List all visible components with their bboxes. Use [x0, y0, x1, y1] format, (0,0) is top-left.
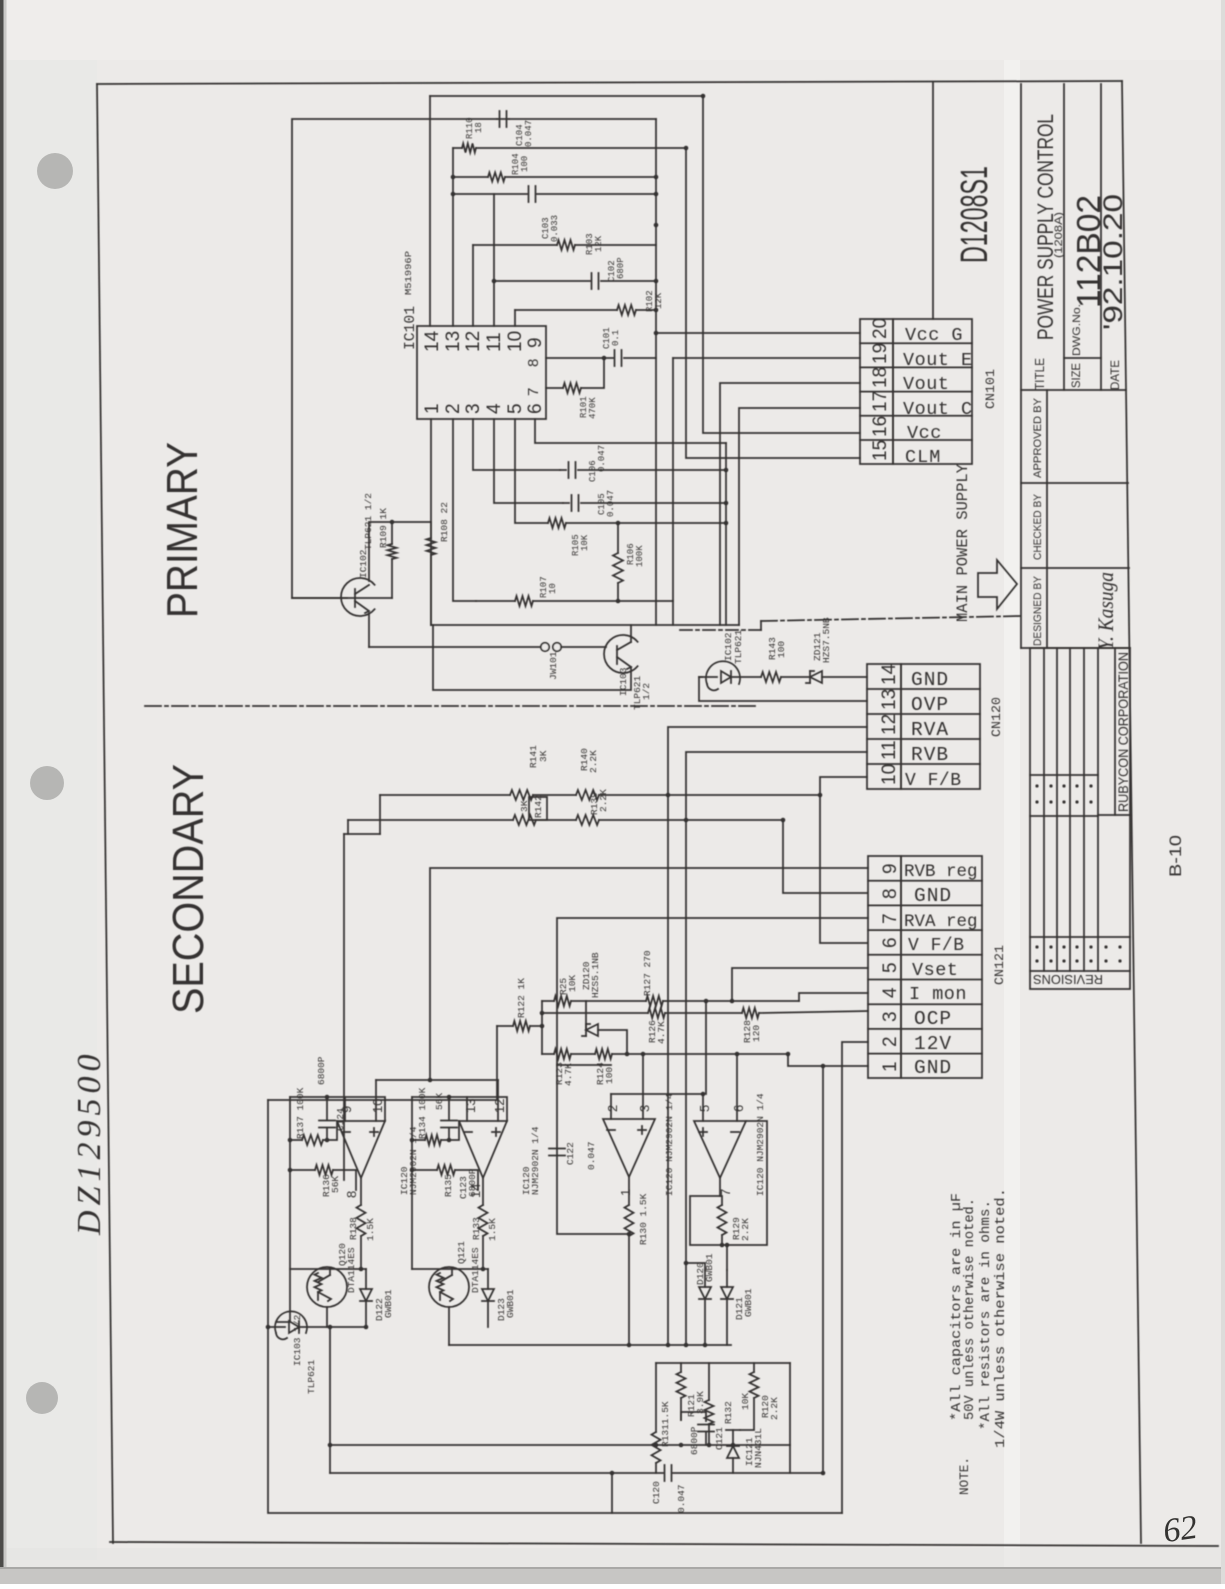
- IC120c plus: [638, 1129, 646, 1131]
- capacitor C120: [664, 1465, 666, 1481]
- capacitor C106: [560, 469, 566, 471]
- wire R110 rail: [453, 147, 462, 149]
- resistor R105: [548, 518, 566, 528]
- svg-text:13: 13: [443, 331, 464, 352]
- resistor R101: [563, 383, 581, 393]
- svg-text:10: 10: [548, 583, 558, 594]
- svg-text:R109 1K: R109 1K: [378, 508, 389, 548]
- svg-text:OCP: OCP: [914, 1008, 952, 1030]
- resistor R131: [655, 1363, 657, 1432]
- svg-text:12: 12: [879, 714, 900, 735]
- svg-text:Vcc G: Vcc G: [905, 325, 963, 346]
- svg-text:B-10: B-10: [1166, 835, 1185, 877]
- svg-text:Vset: Vset: [912, 960, 958, 981]
- svg-text:18: 18: [474, 122, 484, 133]
- svg-text:0.047: 0.047: [676, 1484, 687, 1513]
- resistor R133: [479, 1205, 488, 1236]
- svg-text:RVA: RVA: [911, 719, 949, 741]
- bus wire Vout: [720, 383, 860, 625]
- svg-text:REVISIONS: REVISIONS: [1033, 972, 1103, 987]
- primary left loop wire: [292, 119, 497, 598]
- resistor R138: [357, 1205, 366, 1236]
- svg-text:*All resistors are in ohms.: *All resistors are in ohms.: [979, 1200, 994, 1430]
- svg-text:CLM: CLM: [905, 447, 941, 468]
- diode D122: [360, 1289, 372, 1301]
- svg-text:APPROVED BY: APPROVED BY: [1032, 397, 1044, 478]
- svg-text:8: 8: [880, 888, 901, 899]
- svg-text:R135: R135: [443, 1174, 454, 1197]
- svg-text:10: 10: [505, 331, 526, 352]
- IC120b minus: [464, 1131, 472, 1133]
- svg-text:9: 9: [339, 1106, 354, 1113]
- op-amp IC120c triangle: [603, 1119, 655, 1177]
- sheet border right edge: [1122, 81, 1141, 1543]
- bus wire Vout C: [739, 408, 860, 625]
- svg-text:6800P: 6800P: [316, 1056, 327, 1085]
- svg-text:I mon: I mon: [909, 984, 967, 1005]
- svg-text:R134 100K: R134 100K: [417, 1087, 428, 1139]
- revisions RUBYCON CORPORATION cell: [1114, 648, 1116, 815]
- svg-text:Vout: Vout: [903, 374, 949, 395]
- svg-text:4: 4: [880, 987, 901, 998]
- svg-text:CN120: CN120: [989, 697, 1004, 737]
- resistor R128: [742, 1008, 759, 1018]
- svg-text:12: 12: [463, 331, 484, 352]
- IC101 pin2 wire: [453, 419, 476, 601]
- svg-text:IC102: IC102: [358, 549, 369, 578]
- svg-text:8: 8: [344, 1191, 359, 1198]
- wire opamp2 feedback box: [412, 1097, 507, 1121]
- svg-text:680P: 680P: [616, 257, 626, 279]
- op-amp controller IC101 box: [417, 326, 546, 419]
- svg-text:1: 1: [880, 1061, 901, 1072]
- zener diode ZD120: [586, 1024, 598, 1036]
- svg-text:Q121: Q121: [456, 1241, 467, 1264]
- svg-text:V F/B: V F/B: [908, 936, 965, 956]
- svg-text:IC120 NJM2902N 1/4: IC120 NJM2902N 1/4: [664, 1093, 675, 1196]
- punch hole top: [37, 153, 73, 189]
- svg-text:DTA114ES: DTA114ES: [346, 1247, 357, 1293]
- svg-text:DTA114ES: DTA114ES: [470, 1247, 481, 1293]
- title block SIZE-DWG row separator: [1100, 84, 1102, 390]
- resistor R141: [510, 790, 533, 800]
- svg-text:'92.10.20: '92.10.20: [1098, 194, 1128, 330]
- wire RVB rail: [348, 819, 513, 821]
- svg-text:Y. Kasuga: Y. Kasuga: [1093, 572, 1118, 650]
- revisions column line a: [1030, 774, 1098, 776]
- wire Q120 emitter rail: [327, 1326, 366, 1328]
- svg-text:5: 5: [697, 1105, 712, 1112]
- IC101 pin4 wire: [494, 419, 563, 503]
- svg-text:RVA reg: RVA reg: [904, 912, 978, 932]
- svg-text:11: 11: [879, 740, 900, 760]
- IC101 pin12 stub: [472, 245, 474, 326]
- punch hole bottom: [26, 1382, 58, 1414]
- svg-text:R1311.5K: R1311.5K: [660, 1401, 671, 1447]
- svg-text:16: 16: [870, 416, 891, 437]
- op-amp IC120b triangle: [459, 1121, 507, 1178]
- wire IC102 emitter: [368, 613, 370, 647]
- wire opamp4 inputs: [702, 1094, 704, 1121]
- op-amp IC120d triangle: [694, 1121, 746, 1178]
- svg-text:9: 9: [880, 863, 901, 874]
- sheet border bottom edge: [110, 1542, 1218, 1546]
- svg-text:7: 7: [880, 913, 901, 924]
- wire opamp1 feedback box: [290, 1097, 385, 1121]
- svg-text:R133: R133: [471, 1217, 482, 1240]
- IC120b plus: [492, 1131, 500, 1133]
- resistor R132: [705, 1400, 714, 1424]
- resistor R103: [557, 240, 575, 250]
- primary-secondary separator dash line left: [145, 705, 757, 707]
- wire R125 out: [586, 1000, 646, 1002]
- resistor R107: [476, 600, 515, 602]
- svg-text:TITLE: TITLE: [1032, 358, 1047, 390]
- svg-text:GWB01: GWB01: [505, 1289, 516, 1318]
- svg-text:9: 9: [525, 337, 546, 348]
- optocoupler IC103 phototransistor: [604, 635, 638, 673]
- svg-text:HZS5.1NB: HZS5.1NB: [590, 952, 601, 998]
- svg-text:100: 100: [604, 1067, 615, 1084]
- wire Q120: [290, 1268, 366, 1270]
- svg-text:RUBYCON CORPORATION: RUBYCON CORPORATION: [1115, 652, 1131, 812]
- capacitor C123: [441, 1120, 457, 1122]
- wire C102 rail: [494, 280, 590, 282]
- svg-text:10K: 10K: [567, 975, 578, 992]
- wire secondary long rail 2: [330, 1472, 663, 1474]
- wire secondary long rail 1: [329, 1327, 331, 1473]
- resistor R104: [488, 173, 505, 182]
- bus wire CLM: [686, 148, 860, 458]
- svg-text:M51996P: M51996P: [404, 251, 414, 295]
- svg-text:TLP621: TLP621: [306, 1359, 317, 1394]
- svg-text:GND: GND: [914, 885, 952, 907]
- revisions dot marks band 2: [1035, 945, 1038, 948]
- title block TITLE row separator: [1063, 84, 1065, 390]
- IC101 pin8 wire: [546, 357, 613, 359]
- svg-text:RVB: RVB: [911, 744, 949, 766]
- wire IC102 LED return / OVP: [699, 677, 867, 701]
- IC101 pin14 stub: [429, 96, 431, 326]
- svg-text:MAIN POWER SUPPLY: MAIN POWER SUPPLY: [954, 463, 972, 622]
- revisions column line b: [1030, 815, 1098, 817]
- connector CN121 box: [868, 856, 901, 1078]
- IC101 pin6 wire: [535, 419, 726, 443]
- wire GND rail: [822, 1066, 824, 1473]
- svg-text:DWG.No.: DWG.No.: [1071, 304, 1083, 356]
- resistor R109: [388, 544, 397, 559]
- resistor R137: [302, 1135, 323, 1145]
- svg-text:14: 14: [422, 330, 443, 352]
- svg-text:120: 120: [751, 1025, 762, 1042]
- primary Vcc top rail: [430, 95, 703, 97]
- IC101 pin5 wire: [515, 419, 548, 523]
- resistor R123: [542, 1053, 554, 1055]
- svg-text:2.2K: 2.2K: [598, 789, 609, 812]
- svg-text:100: 100: [520, 156, 530, 172]
- bus wire Vout E: [672, 358, 674, 625]
- wire I mon: [799, 993, 868, 1001]
- svg-text:50V unless otherwise noted.: 50V unless otherwise noted.: [963, 1198, 978, 1420]
- title CHECKED BY column: [1021, 567, 1129, 569]
- svg-text:10K: 10K: [740, 1393, 751, 1410]
- resistor R122: [497, 1025, 513, 1027]
- svg-text:TLP621: TLP621: [733, 629, 744, 664]
- svg-text:13: 13: [879, 689, 900, 710]
- wire opamp3 box: [557, 1065, 629, 1234]
- svg-text:2: 2: [443, 403, 464, 414]
- handwritten DZ129500: [71, 1050, 108, 1236]
- wire R122 left feed: [268, 1026, 497, 1100]
- svg-text:V F/B: V F/B: [905, 771, 962, 791]
- capacitor C121: [681, 1412, 706, 1421]
- svg-text:(1208A): (1208A): [1053, 212, 1065, 258]
- svg-text:GND: GND: [914, 1057, 952, 1079]
- wire opamp1 inputs: [344, 1097, 346, 1121]
- svg-text:14: 14: [879, 663, 900, 685]
- svg-text:R127 270: R127 270: [642, 950, 653, 996]
- svg-text:CHECKED BY: CHECKED BY: [1032, 493, 1044, 560]
- resistor R139: [576, 815, 599, 825]
- wire C104 top rail: [497, 118, 509, 120]
- wire R122 node: [541, 1001, 543, 1054]
- connector CN120 box: [867, 664, 901, 789]
- wire opamp4 out: [690, 1196, 722, 1245]
- svg-text:17: 17: [870, 391, 891, 412]
- optocoupler IC102 phototransistor: [341, 578, 375, 616]
- wire IC103 collector to bus: [630, 625, 632, 642]
- svg-text:Vout E: Vout E: [903, 350, 973, 371]
- wire IC102 collector: [369, 522, 431, 581]
- svg-text:56K: 56K: [330, 1176, 341, 1193]
- svg-text:0.047: 0.047: [586, 1141, 597, 1170]
- svg-text:IC103 1/2: IC103 1/2: [292, 1314, 303, 1366]
- svg-text:7: 7: [525, 388, 542, 396]
- svg-text:5: 5: [505, 403, 526, 414]
- svg-text:3: 3: [637, 1105, 652, 1112]
- diode D120: [699, 1287, 711, 1299]
- svg-text:3K: 3K: [538, 750, 549, 762]
- wire comparator I-mon jog: [611, 1093, 703, 1095]
- resistor R142: [513, 815, 536, 825]
- svg-text:2.2K: 2.2K: [769, 1397, 780, 1420]
- wire R139 to GND pin8: [783, 820, 867, 893]
- capacitor C105: [563, 502, 569, 504]
- svg-text:DZ129500: DZ129500: [71, 1050, 108, 1236]
- svg-text:DESIGNED BY: DESIGNED BY: [1032, 575, 1044, 646]
- svg-text:6800P: 6800P: [689, 1426, 700, 1455]
- svg-text:10: 10: [879, 764, 900, 785]
- svg-text:R108 22: R108 22: [439, 502, 450, 542]
- svg-text:R132: R132: [723, 1401, 734, 1424]
- svg-text:R130 1.5K: R130 1.5K: [638, 1193, 649, 1245]
- optocoupler IC103 LED side: [275, 1311, 307, 1333]
- resistor R126: [542, 1012, 648, 1014]
- resistor R102: [617, 305, 636, 315]
- svg-text:0.1: 0.1: [611, 330, 621, 346]
- resistor R135: [437, 1165, 455, 1175]
- svg-text:C120: C120: [651, 1481, 662, 1504]
- svg-text:1.5K: 1.5K: [365, 1218, 376, 1241]
- wire 12V rail: [842, 1042, 868, 1513]
- svg-text:OVP: OVP: [911, 694, 949, 716]
- wire opamp3 inputs: [642, 1054, 644, 1119]
- wire C103 rail: [453, 193, 527, 195]
- sheet border left edge: [97, 84, 113, 1543]
- wire RVA reg rail: [557, 918, 868, 1065]
- capacitor C122: [549, 1148, 565, 1150]
- main power supply corridor line: [932, 82, 934, 319]
- svg-text:GWB01: GWB01: [383, 1289, 394, 1318]
- diode D121: [721, 1287, 733, 1299]
- svg-text:HZS7.5NB: HZS7.5NB: [821, 617, 832, 663]
- capacitor C104: [499, 111, 501, 127]
- revisions column line e: [1030, 970, 1130, 972]
- wire R104 rail: [453, 176, 488, 178]
- title block outline: [1020, 84, 1022, 648]
- svg-text:IC120 NJM2902N 1/4: IC120 NJM2902N 1/4: [755, 1093, 766, 1196]
- bus wire Vcc G: [655, 119, 657, 625]
- revisions column line c: [1098, 814, 1130, 816]
- svg-text:NJM2902N 1/4: NJM2902N 1/4: [530, 1126, 541, 1195]
- resistor R106: [613, 553, 623, 583]
- wire D120 top to RVB: [686, 1263, 705, 1270]
- zener diode ZD121: [810, 671, 822, 683]
- svg-text:10K: 10K: [580, 534, 590, 551]
- resistor R127: [646, 996, 663, 1006]
- main power supply arrow: [978, 560, 1017, 609]
- wire R124 to pin1: [788, 1054, 868, 1066]
- svg-text:0.047: 0.047: [524, 120, 534, 147]
- revisions dot marks band 1: [1035, 784, 1038, 787]
- title label row line: [1046, 390, 1048, 648]
- op-amp IC120a triangle: [337, 1121, 385, 1178]
- svg-text:R138: R138: [348, 1217, 359, 1240]
- svg-text:6: 6: [731, 1105, 746, 1112]
- svg-text:D1208S1: D1208S1: [954, 166, 996, 263]
- sheet border top edge: [97, 81, 1122, 84]
- svg-text:15: 15: [870, 440, 891, 461]
- svg-text:Vout C: Vout C: [903, 399, 973, 420]
- secondary enclosure box: [268, 1100, 842, 1513]
- resistor R136: [315, 1165, 333, 1175]
- resistor R134: [425, 1135, 441, 1145]
- svg-text:1.5K: 1.5K: [487, 1218, 498, 1241]
- IC120d plus: [699, 1131, 707, 1133]
- capacitor C103: [528, 186, 530, 202]
- svg-text:JW101: JW101: [548, 651, 559, 680]
- resistor R124: [571, 1053, 595, 1055]
- svg-text:R137 100K: R137 100K: [295, 1087, 306, 1139]
- wire R102 rail: [515, 309, 617, 311]
- svg-text:62: 62: [1161, 1509, 1200, 1550]
- resistor R129: [718, 1205, 727, 1235]
- svg-text:CN101: CN101: [983, 369, 998, 409]
- svg-text:100K: 100K: [635, 545, 645, 567]
- shunt regulator IC121 NJN431L: [727, 1446, 739, 1458]
- optocoupler IC102 LED side: [706, 661, 740, 684]
- diode D123: [482, 1289, 494, 1301]
- svg-text:GND: GND: [911, 669, 949, 691]
- svg-text:0.047: 0.047: [606, 490, 616, 517]
- revisions column line d: [1030, 936, 1130, 938]
- svg-text:1/4W unless otherwise noted.: 1/4W unless otherwise noted.: [994, 1188, 1009, 1448]
- resistor R108: [427, 538, 436, 555]
- IC101 pin7 wire: [546, 387, 563, 389]
- svg-text:2.2K: 2.2K: [588, 750, 599, 773]
- IC101 pin1 wire: [430, 419, 432, 625]
- svg-text:C122: C122: [565, 1142, 576, 1165]
- resistor R125: [542, 1000, 554, 1002]
- wire Vset: [732, 968, 868, 1001]
- svg-text:6: 6: [525, 403, 546, 414]
- wire D121 top to output loop: [726, 1245, 728, 1270]
- svg-text:Vcc: Vcc: [907, 423, 942, 444]
- svg-text:1: 1: [422, 403, 443, 414]
- capacitor C124: [319, 1120, 335, 1122]
- svg-text:6: 6: [880, 937, 901, 948]
- IC120c minus: [607, 1129, 615, 1131]
- svg-text:3: 3: [880, 1011, 901, 1022]
- wire bottom cluster box: [656, 1362, 790, 1364]
- svg-text:12K: 12K: [594, 235, 604, 252]
- svg-text:4.7K: 4.7K: [563, 1063, 574, 1086]
- connector CN101 box: [860, 319, 893, 464]
- svg-text:RVB reg: RVB reg: [904, 862, 978, 882]
- svg-text:2: 2: [605, 1105, 620, 1112]
- svg-text:20: 20: [870, 318, 891, 339]
- svg-text:12V: 12V: [914, 1033, 952, 1055]
- svg-text:1/2: 1/2: [641, 683, 652, 700]
- primary-secondary separator jog: [680, 629, 761, 631]
- svg-text:PRIMARY: PRIMARY: [158, 442, 207, 618]
- svg-text:470K: 470K: [588, 397, 598, 419]
- wire RVB reg rail: [430, 868, 868, 1080]
- resistor R120: [750, 1372, 759, 1398]
- IC101 pin10 stub: [514, 310, 516, 326]
- primary bottom rail: [431, 624, 739, 626]
- svg-text:R122 1K: R122 1K: [516, 978, 527, 1018]
- svg-text:100: 100: [776, 641, 787, 658]
- svg-text:8: 8: [525, 359, 542, 367]
- wire C120 stub: [611, 1473, 613, 1513]
- svg-text:11: 11: [484, 332, 505, 352]
- IC120a plus: [370, 1131, 378, 1133]
- svg-text:4: 4: [484, 403, 505, 414]
- svg-text:5: 5: [880, 962, 901, 973]
- wire opamp2 inputs: [466, 1097, 468, 1121]
- svg-text:SIZE: SIZE: [1069, 363, 1083, 388]
- svg-text:19: 19: [870, 343, 891, 364]
- svg-text:IC103: IC103: [618, 667, 629, 696]
- resistor R110: [462, 144, 476, 153]
- revisions row lines: [1043, 648, 1045, 971]
- wire primary right drop: [725, 443, 727, 625]
- IC101 pin11 stub: [493, 194, 495, 326]
- svg-text:2: 2: [880, 1036, 901, 1047]
- resistor R140: [576, 790, 599, 800]
- primary-secondary separator right: [761, 616, 1021, 621]
- transistor Q121 DTA114ES: [429, 1267, 469, 1307]
- IC120a minus: [342, 1131, 350, 1133]
- svg-text:4.7K: 4.7K: [656, 1021, 667, 1044]
- svg-text:3: 3: [463, 403, 484, 414]
- wire R103 rail: [473, 244, 557, 246]
- wire V F/B to CN120 pin10: [820, 777, 867, 943]
- svg-text:14: 14: [468, 1184, 483, 1198]
- IC120d minus: [731, 1131, 739, 1133]
- wire IC103 emitter loop: [433, 625, 631, 690]
